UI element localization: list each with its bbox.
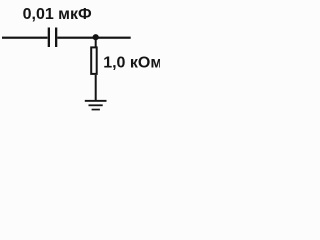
- svg-text:1,0 кОм: 1,0 кОм: [103, 55, 160, 72]
- wire from node down to resistor: [95, 38, 97, 47]
- resistor R1 body: [91, 47, 97, 74]
- wire middle segment: [57, 37, 130, 39]
- ground top bar: [85, 100, 107, 102]
- node junction dot: [93, 34, 99, 40]
- ground middle bar: [89, 104, 103, 106]
- wire left segment: [2, 37, 48, 39]
- wire from resistor down to ground: [95, 75, 97, 100]
- capacitor C1 right plate: [55, 28, 57, 48]
- ground bottom bar: [92, 109, 100, 111]
- svg-text:0,01 мкФ: 0,01 мкФ: [23, 6, 92, 23]
- capacitor C1 left plate: [48, 28, 50, 48]
